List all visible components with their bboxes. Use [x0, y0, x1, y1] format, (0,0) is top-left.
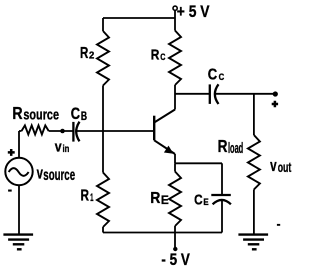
svg-text:load: load [228, 141, 243, 157]
resistor Rload [248, 135, 260, 190]
wire emitter to CE branch [175, 162, 222, 164]
label Rload [218, 136, 244, 157]
terminal +5V open circle [173, 6, 177, 10]
svg-text:R: R [12, 103, 22, 123]
resistor RC [169, 31, 181, 86]
svg-text:R: R [150, 190, 160, 207]
svg-text:2: 2 [89, 50, 94, 62]
resistor RE [169, 172, 181, 227]
wire Rsource to CB [49, 130, 74, 132]
svg-text:E: E [203, 197, 209, 208]
node vin junction dot [60, 129, 65, 134]
node +5V stub [174, 10, 176, 18]
source sine wave [9, 168, 29, 176]
resistor Rsource [22, 125, 49, 134]
wire emitter vertical [174, 154, 176, 163]
resistor R1 [97, 173, 109, 228]
svg-text:C: C [160, 52, 165, 63]
svg-text:C: C [71, 104, 80, 123]
svg-text:source: source [43, 167, 75, 184]
label CC [208, 67, 225, 84]
label RE [150, 190, 169, 207]
source vsource circle [5, 158, 32, 185]
label plus source [8, 149, 15, 156]
node output terminal dot [273, 91, 278, 96]
wire collector vertical [174, 85, 176, 110]
svg-text:1: 1 [90, 192, 93, 204]
resistor R2 [97, 31, 109, 86]
capacitor CB [73, 122, 79, 142]
svg-text:C: C [194, 192, 203, 208]
wire CC to output [215, 93, 275, 95]
svg-text:source: source [23, 107, 59, 124]
label RC [151, 47, 166, 63]
label minus output [277, 224, 280, 226]
wire R1 top [102, 131, 104, 173]
wire R2 top [102, 18, 104, 31]
svg-text:C: C [219, 72, 225, 82]
wire Rload top branch [253, 94, 255, 135]
ground left [3, 235, 33, 250]
svg-text:v: v [270, 157, 277, 175]
svg-text:B: B [81, 111, 87, 123]
node -5V dot [173, 247, 177, 251]
wire source plus lead [18, 131, 20, 158]
svg-text:R: R [151, 47, 160, 63]
svg-text:out: out [278, 160, 292, 175]
label vout [270, 157, 292, 175]
svg-text:in: in [63, 143, 70, 155]
ground right [238, 235, 268, 250]
wire CB to base [76, 130, 153, 132]
svg-text:E: E [161, 195, 169, 207]
svg-text:R: R [80, 45, 88, 62]
capacitor CC [210, 84, 219, 104]
wire RE bottom through rail to -5V [174, 226, 176, 247]
wire RC top [174, 18, 176, 31]
label R2 [80, 45, 94, 62]
label vsource [37, 163, 76, 184]
transistor Q1 emitter diagonal [154, 140, 175, 154]
wire R1 bottom stub [102, 227, 104, 233]
svg-text:- 5 V: - 5 V [161, 250, 190, 269]
label minus source [8, 190, 12, 192]
label vin [55, 138, 70, 155]
wire R2 bottom to base node [102, 86, 104, 132]
svg-text:v: v [55, 138, 62, 155]
label R1 [81, 188, 94, 205]
svg-text:C: C [208, 67, 217, 84]
wire CE bottom [221, 200, 223, 233]
wire vin corner [19, 130, 22, 132]
capacitor CE vertical lead [221, 163, 223, 195]
wire RE top [174, 163, 176, 171]
transistor Q1 base bar [153, 116, 155, 141]
capacitor CE [211, 195, 231, 204]
wire source bottom lead [18, 185, 20, 233]
wire Rload bottom [253, 190, 255, 234]
label Rsource [12, 103, 59, 123]
label CB [71, 104, 87, 123]
svg-text:R: R [81, 188, 90, 205]
transistor Q1 collector diagonal [154, 110, 175, 123]
label CE [194, 192, 209, 208]
transistor Q1 emitter arrowhead [164, 146, 174, 154]
wire top rail from R2 to RC [103, 17, 175, 19]
label plus output [272, 101, 278, 107]
svg-text:v: v [37, 163, 44, 182]
wire collector CC line [175, 93, 210, 95]
wire bottom rail [103, 232, 222, 234]
svg-text:R: R [218, 136, 228, 156]
svg-text:+ 5 V: + 5 V [177, 2, 210, 21]
